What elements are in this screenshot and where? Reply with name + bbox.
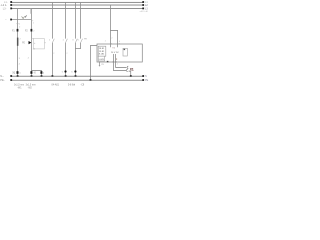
connector XD1 upper pole	[127, 66, 128, 68]
wire K4 join K3	[75, 48, 80, 50]
wire F1 drop	[17, 8, 19, 76]
node K3/N	[75, 75, 77, 77]
wire branch to X1:3	[31, 70, 41, 76]
wire dot K3	[74, 70, 76, 72]
tick mark	[31, 37, 33, 39]
bus L1	[10, 1, 144, 3]
device U1 small component	[123, 48, 127, 56]
contactor K3 wire	[75, 2, 77, 76]
PE wire to enclosure	[91, 45, 98, 80]
switch Q2 upper thick segment	[30, 9, 32, 14]
connector XD1 lower pole	[126, 69, 127, 71]
output wires below device	[113, 54, 126, 70]
svg-text:13.81: 13.81	[99, 51, 105, 53]
svg-text:24 V DC: 24 V DC	[111, 52, 119, 54]
small component mark	[124, 49, 126, 50]
node tap at 19.5 with stub	[10, 19, 31, 21]
node X1:3/N	[41, 75, 43, 77]
device U1 inner terminal box	[98, 46, 106, 56]
terminal X1:3 body	[40, 71, 42, 74]
fuse F1 body	[17, 29, 19, 32]
svg-text:PE-: PE-	[0, 78, 4, 82]
device U1 enclosure box	[97, 44, 142, 62]
switch Q2 actuator	[22, 16, 25, 18]
bus L3	[10, 8, 144, 10]
contactor K1 wire	[52, 2, 54, 76]
svg-text:N--: N--	[0, 74, 4, 78]
below-box pin tick	[116, 58, 117, 61]
terminal X1:1 body	[17, 71, 19, 74]
svg-text:5-8 6th: 5-8 6th	[68, 83, 76, 86]
bus N	[10, 75, 144, 77]
linkage tick left	[34, 42, 35, 44]
svg-text:L-M3: L-M3	[99, 59, 105, 61]
contactor K2 wire	[66, 2, 68, 76]
svg-text:=AN1+A1: =AN1+A1	[140, 10, 150, 13]
cable W2 label	[26, 85, 36, 90]
cable W1 label	[14, 85, 24, 90]
fuse F2 body	[31, 29, 33, 32]
bus PE	[10, 79, 144, 81]
feed wire to device T1	[109, 5, 111, 47]
wire connector to N	[129, 71, 131, 76]
svg-text:PE: PE	[22, 43, 26, 45]
device U1 lower terminal box	[98, 56, 104, 61]
PE stub below box	[99, 62, 101, 65]
node K2/N	[65, 75, 67, 77]
svg-text:-W1: -W1	[17, 88, 22, 90]
node F1/N	[17, 75, 19, 77]
breaker Q1 body on F1 wire	[17, 38, 19, 46]
pin tick on F1 wire	[16, 23, 18, 25]
svg-text:L3-: L3-	[3, 8, 7, 11]
svg-text:N: N	[145, 75, 147, 78]
contactor K4 wire	[81, 2, 83, 49]
node K1/N	[52, 75, 54, 77]
svg-text:18.81: 18.81	[99, 48, 105, 50]
terminal X1:2 body	[30, 71, 32, 74]
node XD1/N	[130, 75, 132, 77]
PE stub arrow	[99, 65, 101, 66]
svg-text:8.181: 8.181	[99, 54, 105, 56]
terminal dot at box bottom	[107, 61, 109, 63]
linkage tick right	[44, 42, 46, 44]
inner terminal box text	[99, 48, 105, 56]
breaker linkage outline	[34, 39, 45, 49]
svg-text:04-A01: 04-A01	[52, 83, 60, 86]
PE arrow marker	[29, 41, 32, 44]
svg-text:3x1,5 mm: 3x1,5 mm	[26, 85, 36, 87]
wire dot K2	[64, 70, 66, 72]
switch Q2 drop wire	[30, 8, 32, 76]
svg-text:-W2: -W2	[28, 88, 33, 90]
terminal marks at box bottom crossings	[113, 61, 114, 62]
branch wire	[110, 30, 117, 47]
switch contact ticks	[31, 20, 33, 22]
node X1:2/N	[31, 75, 33, 77]
svg-text:3x1,5 mm: 3x1,5 mm	[14, 85, 24, 87]
node PE bus	[90, 79, 92, 81]
svg-text:PE: PE	[145, 79, 149, 82]
switch Q2 blade	[25, 15, 26, 17]
bus L2	[10, 4, 144, 6]
